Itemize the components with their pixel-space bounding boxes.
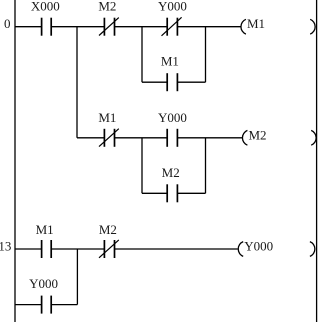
contact M2 (NO) branch2 xyxy=(167,184,177,202)
slash of NC contact M2 rung3 xyxy=(99,240,119,258)
svg-text:M2: M2 xyxy=(99,222,117,237)
contact M1 (NC) rung2 xyxy=(104,129,114,147)
contact Y000 (NO) branch3 xyxy=(42,296,52,314)
svg-text:M1: M1 xyxy=(98,110,116,125)
coil M2 left paren xyxy=(242,130,247,145)
svg-text:Y000: Y000 xyxy=(158,110,187,125)
branch1 wire left xyxy=(142,81,167,83)
svg-text:X000: X000 xyxy=(31,0,60,14)
contact M2 (NC) xyxy=(104,18,114,36)
coil M1 right paren xyxy=(310,19,315,34)
branch2 wire left xyxy=(142,192,167,194)
branch1 left vertical xyxy=(141,27,143,82)
svg-text:Y000: Y000 xyxy=(158,0,187,14)
contact M1 (NO) rung3 xyxy=(42,240,52,258)
branch1 right vertical xyxy=(205,27,207,82)
wire rung2 junction to M1 xyxy=(77,137,104,139)
svg-text:0: 0 xyxy=(4,16,11,31)
wire rung1 M2 to Y000 xyxy=(115,26,168,28)
svg-text:13: 13 xyxy=(0,238,11,253)
contact X000 (NO) xyxy=(42,18,52,36)
contact M2 (NC) rung3 xyxy=(104,240,114,258)
wire rung2 Y000 to coil M2 xyxy=(177,137,242,139)
wire rung3 M1 to M2 xyxy=(51,248,104,250)
branch3 wire rail to Y000 xyxy=(15,304,42,306)
wire rung3 M2 to coil Y000 xyxy=(115,248,238,250)
contact Y000 (NC) rung1 xyxy=(167,18,177,36)
svg-text:M1: M1 xyxy=(161,54,179,69)
wire rung3 rail to M1 xyxy=(15,248,42,250)
left power rail xyxy=(14,0,16,322)
wire rung2 M1 to Y000 xyxy=(115,137,168,139)
coil Y000 right paren xyxy=(310,242,315,257)
wire rung1 rail to X000 xyxy=(15,26,42,28)
coil Y000 left paren xyxy=(238,242,243,257)
junction vertical rung3 to branch3 xyxy=(76,249,78,305)
wire rung1 Y000 to coil M1 xyxy=(177,26,240,28)
coil M2 right paren xyxy=(311,130,316,145)
branch2 left vertical xyxy=(141,138,143,194)
right power rail xyxy=(316,0,318,322)
svg-text:Y000: Y000 xyxy=(244,239,273,254)
svg-text:Y000: Y000 xyxy=(29,276,58,291)
svg-text:M2: M2 xyxy=(98,0,116,14)
junction vertical rung1 to rung2 xyxy=(76,27,78,138)
slash of NC contact Y000 rung1 xyxy=(162,17,182,36)
wire rung1 X000 to M2 xyxy=(51,26,104,28)
svg-text:M1: M1 xyxy=(36,222,54,237)
svg-text:M2: M2 xyxy=(249,127,267,142)
slash of NC contact M1 rung2 xyxy=(99,129,119,147)
branch2 wire right xyxy=(177,192,205,194)
contact Y000 (NO) rung2 xyxy=(167,129,177,147)
branch1 wire right xyxy=(177,81,205,83)
svg-text:M1: M1 xyxy=(247,16,265,31)
coil M1 left paren xyxy=(241,19,246,34)
contact M1 (NO) branch1 xyxy=(167,73,177,91)
branch3 wire Y000 to junction xyxy=(51,304,77,306)
branch2 right vertical xyxy=(205,138,207,194)
svg-text:M2: M2 xyxy=(162,165,180,180)
slash of NC contact M2 xyxy=(99,18,119,36)
